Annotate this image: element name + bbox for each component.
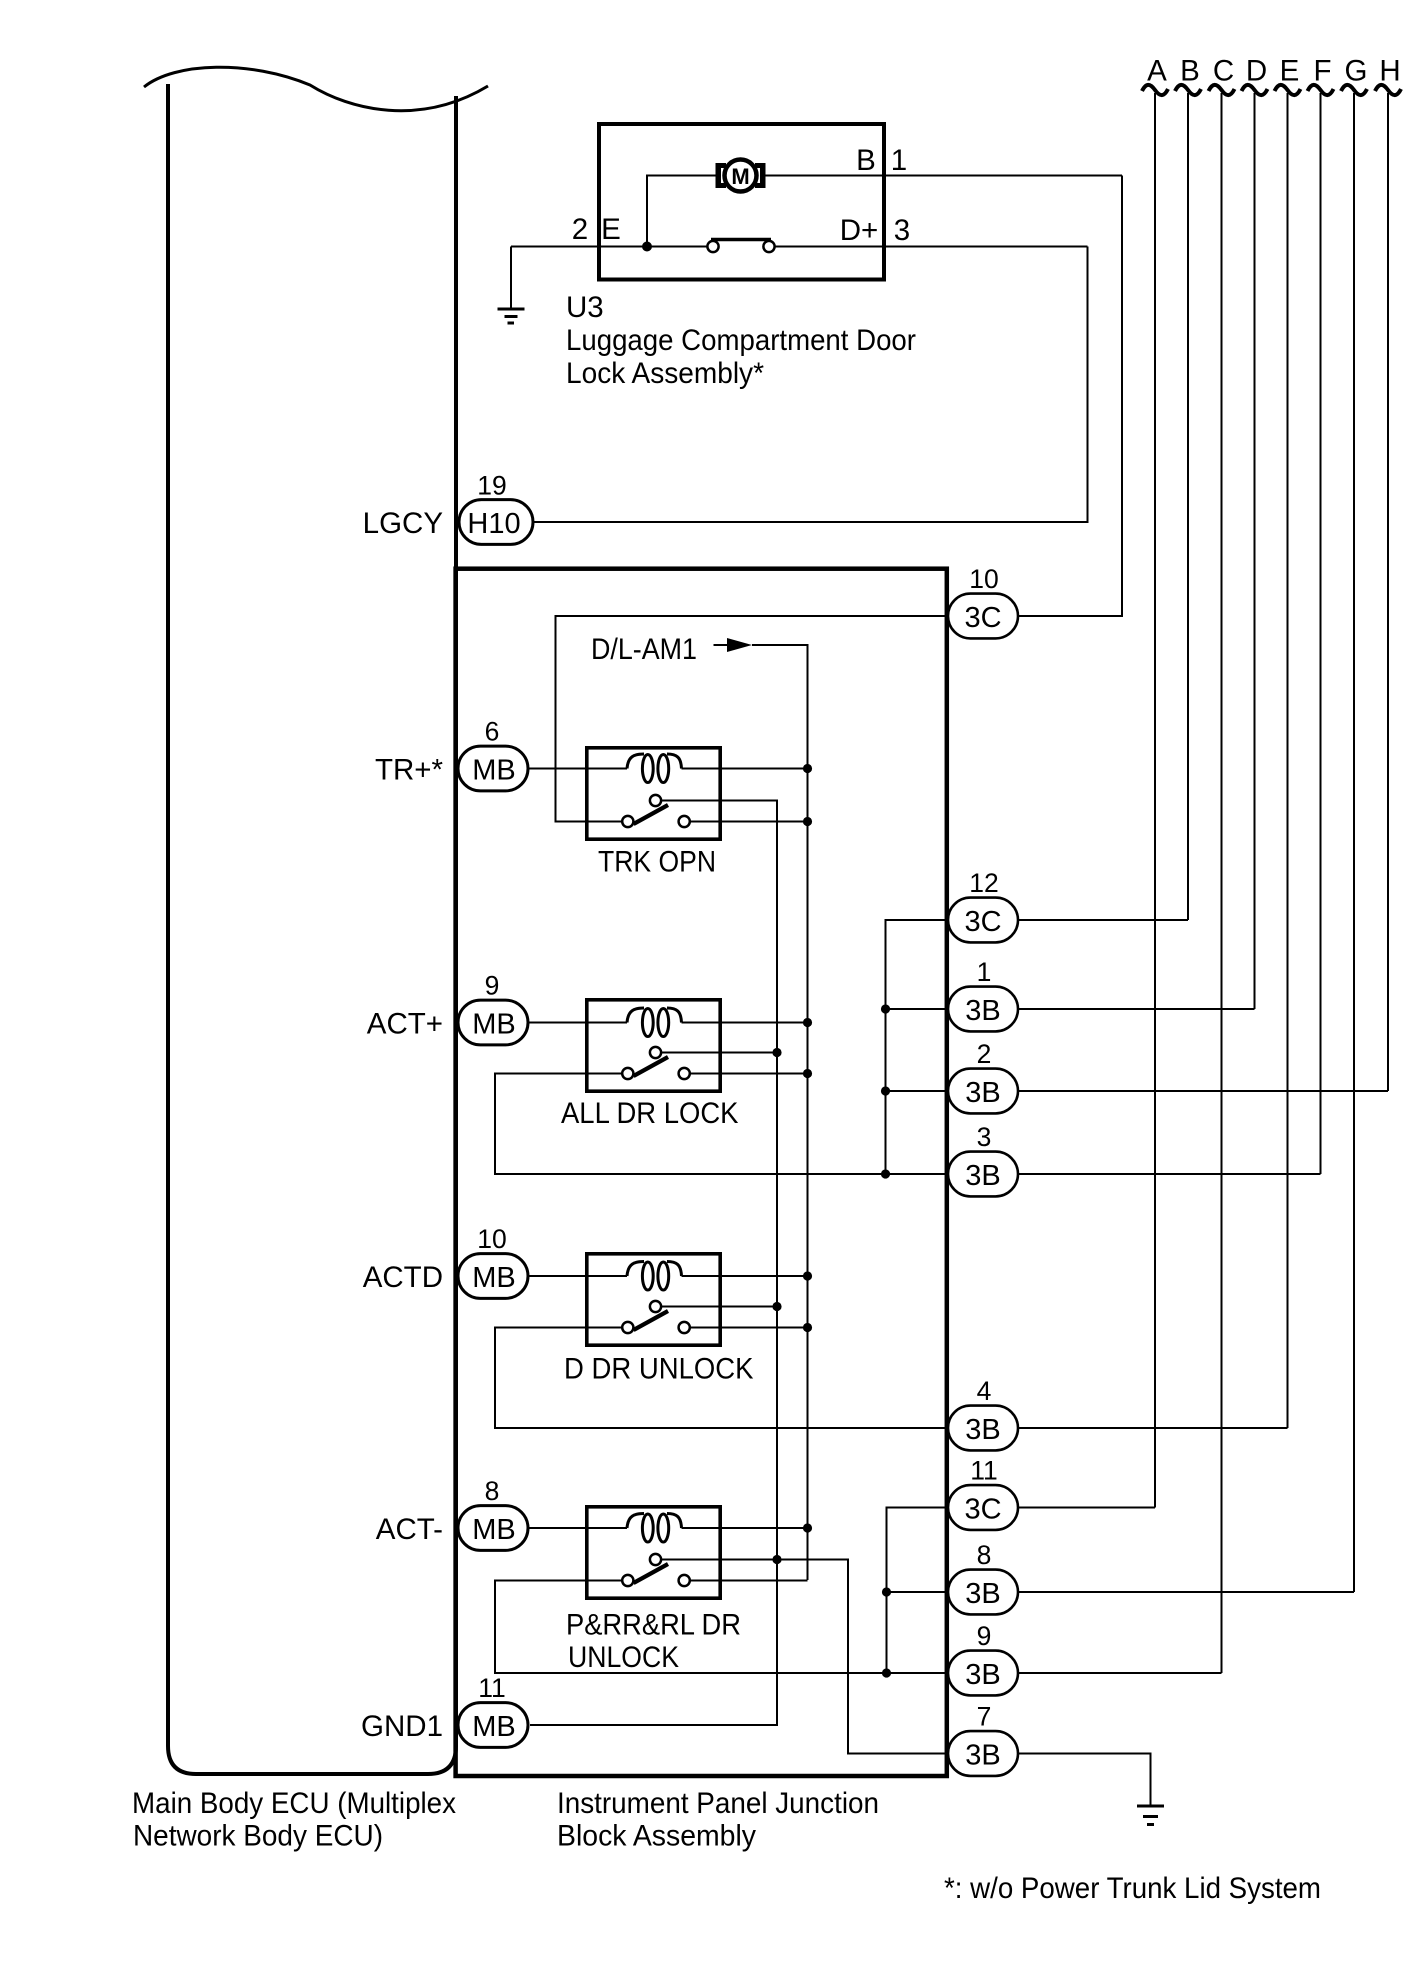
wavy continuation mark E [1275, 85, 1301, 95]
wire: motor B terminal to U3 pin 1 (pin B) [765, 175, 1122, 177]
connector H10 (LGCY) [459, 500, 533, 545]
wire: 3B8 to connector G [1018, 1591, 1354, 1593]
connector 3B pin 7 [948, 1731, 1018, 1776]
junction: contact/GND bus ALL [772, 1048, 781, 1057]
svg-text:2: 2 [977, 1039, 992, 1069]
wire B [1187, 93, 1189, 920]
connector 3B pin 8 [948, 1570, 1018, 1615]
connector 3B pin 4 [948, 1406, 1018, 1451]
wire: H10 pin 19 to U3 pin 3 riser [530, 247, 1088, 523]
Instrument Panel Junction Block Assembly box [456, 569, 947, 1776]
junction: contact/GND bus PRR [772, 1555, 781, 1564]
wire: 3C pin 10 internal to TRK OPN contact [556, 616, 948, 822]
wire: D DR UNLOCK common contact to GND bus [661, 1306, 777, 1308]
svg-text:ACT-: ACT- [376, 1513, 443, 1546]
connector 3B pin 3 [948, 1152, 1018, 1197]
wire: 3B pin 2 stub [886, 1090, 949, 1092]
wire: U3 pin E segment to switch [511, 246, 708, 248]
motor M (U3 luggage door lock motor) [716, 160, 766, 192]
connector 3B pin 2 [948, 1069, 1018, 1114]
U3 Luggage Compartment Door Lock Assembly box [599, 124, 884, 280]
connector 3C pin 10 [948, 594, 1018, 639]
wavy continuation mark F [1308, 85, 1334, 95]
svg-text:GND1: GND1 [361, 1710, 443, 1743]
svg-text:12: 12 [969, 868, 998, 898]
svg-text:D DR UNLOCK: D DR UNLOCK [564, 1353, 754, 1386]
Main Body ECU (Multiplex Network Body ECU) box [168, 84, 456, 1774]
wire: 3B3 to connector F [1018, 1173, 1321, 1175]
wire: ALL DR LOCK coil to bus [682, 1022, 808, 1024]
wire: 3B4 to connector E [1018, 1427, 1288, 1429]
Main Body ECU wavy top edge [144, 67, 488, 110]
wavy continuation mark B [1175, 85, 1201, 95]
svg-text:9: 9 [977, 1621, 992, 1651]
svg-text:Main Body ECU (Multiplex: Main Body ECU (Multiplex [132, 1787, 456, 1820]
svg-text:A: A [1147, 55, 1167, 88]
connector MB pin 6 (TR+*) [458, 746, 528, 791]
wire: D/L-AM1 feed bus [752, 645, 808, 1580]
wavy continuation mark A [1142, 85, 1168, 95]
svg-text:B: B [1180, 55, 1200, 88]
svg-text:ALL DR LOCK: ALL DR LOCK [561, 1097, 739, 1130]
D/L-AM1 arrow [714, 644, 728, 646]
wire: relay contacts common to GND1 bus [530, 801, 777, 1726]
wire: P&RR&RL coil to bus [682, 1527, 808, 1529]
svg-text:3C: 3C [964, 1494, 1001, 1526]
wire: P&RR&RL NO contact to bus end [690, 1580, 808, 1582]
wire: E node to ground [510, 247, 512, 310]
wire: TRK OPN NO contact to bus [690, 821, 808, 823]
svg-text:F: F [1313, 55, 1331, 88]
svg-text:D/L-AM1: D/L-AM1 [591, 633, 697, 666]
svg-text:1: 1 [977, 957, 992, 987]
wire: 3B pin 1 stub [886, 1008, 949, 1010]
svg-text:TR+*: TR+* [375, 754, 444, 787]
wire: 3C10 to U3 pin 1 riser [1018, 176, 1122, 617]
svg-text:Network Body ECU): Network Body ECU) [133, 1820, 383, 1853]
svg-text:11: 11 [478, 1673, 506, 1703]
wire: 3B1 to connector D [1018, 1008, 1255, 1010]
wire E [1287, 93, 1289, 1428]
svg-text:8: 8 [485, 1476, 500, 1506]
svg-text:2: 2 [572, 213, 588, 246]
junction: contact/bus TRK OPN [803, 817, 812, 826]
svg-text:3: 3 [977, 1122, 992, 1152]
svg-text:MB: MB [472, 1711, 516, 1743]
wire: P&RR&RL common contact to 3B pin 7 [661, 1560, 948, 1754]
junction: E node in U3 [642, 242, 652, 252]
wire: 3B2 to connector H [1018, 1090, 1388, 1092]
wire: D DR UNLOCK coil to bus [682, 1275, 808, 1277]
svg-text:E: E [601, 213, 621, 246]
svg-text:B: B [856, 144, 876, 177]
wire: 3B pin 8 stub [887, 1591, 949, 1593]
junction: contact/bus DDR [803, 1323, 812, 1332]
wire: 3C pin 12 link to 3B pins 1,2,3 [886, 920, 949, 1174]
connector MB pin 9 (ACT+) [458, 1000, 528, 1045]
svg-text:E: E [1280, 55, 1300, 88]
svg-text:H: H [1379, 55, 1400, 88]
svg-text:P&RR&RL DR: P&RR&RL DR [566, 1609, 741, 1642]
connector MB pin 8 (ACT-) [458, 1506, 528, 1551]
svg-text:8: 8 [977, 1540, 992, 1570]
wire: D DR UNLOCK contact to 3B pin 4 [495, 1328, 948, 1429]
svg-text:Instrument Panel Junction: Instrument Panel Junction [557, 1787, 879, 1820]
wire: MB pin 9 to ALL DR LOCK coil [528, 1022, 627, 1024]
connector 3B pin 9 [948, 1651, 1018, 1696]
wire: ALL DR LOCK contact to 3B pin 3 [495, 1074, 948, 1175]
svg-text:MB: MB [472, 1262, 516, 1294]
svg-text:Luggage Compartment Door: Luggage Compartment Door [566, 324, 916, 357]
wire: 3B9 to connector C [1018, 1672, 1222, 1674]
svg-text:11: 11 [970, 1456, 998, 1486]
junction: link/3B3 [881, 1169, 890, 1178]
svg-text:ACT+: ACT+ [367, 1008, 443, 1041]
svg-text:MB: MB [472, 755, 516, 787]
svg-text:9: 9 [485, 971, 500, 1001]
wire: MB pin 6 to TRK OPN coil [528, 768, 627, 770]
wire: P&RR&RL contact to 3B pin 9 [495, 1581, 948, 1674]
relay ALL DR LOCK [587, 1000, 720, 1091]
wire G [1353, 93, 1355, 1592]
svg-text:D: D [1246, 55, 1267, 88]
svg-text:3C: 3C [964, 906, 1001, 938]
svg-text:4: 4 [977, 1376, 992, 1406]
svg-text:7: 7 [977, 1702, 992, 1732]
wire: motor left terminal down to E node [647, 176, 716, 247]
wire F [1320, 93, 1322, 1174]
svg-text:Block Assembly: Block Assembly [557, 1820, 756, 1853]
connector 3B pin 1 [948, 987, 1018, 1032]
junction: coil/bus PRR [803, 1523, 812, 1532]
wavy continuation mark C [1209, 85, 1235, 95]
relay D DR UNLOCK [587, 1254, 720, 1345]
svg-text:H10: H10 [467, 508, 520, 540]
svg-text:Lock Assembly*: Lock Assembly* [566, 357, 764, 390]
svg-text:3B: 3B [965, 995, 1000, 1027]
svg-text:3B: 3B [965, 1414, 1000, 1446]
svg-text:LGCY: LGCY [363, 507, 444, 540]
svg-text:10: 10 [477, 1224, 506, 1254]
svg-text:3C: 3C [964, 602, 1001, 634]
svg-text:M: M [731, 164, 749, 189]
svg-text:G: G [1345, 55, 1368, 88]
wire: ALL DR LOCK common contact to GND bus [661, 1052, 777, 1054]
svg-text:3: 3 [894, 214, 910, 247]
svg-text:C: C [1213, 55, 1234, 88]
junction: link/3B8 [882, 1587, 891, 1596]
wire H [1387, 93, 1389, 1091]
svg-text:*: w/o Power Trunk Lid System: *: w/o Power Trunk Lid System [944, 1872, 1321, 1905]
wire A [1154, 93, 1156, 1508]
svg-text:3B: 3B [965, 1659, 1000, 1691]
junction: link/3B1 [881, 1004, 890, 1013]
connector MB pin 10 (ACTD) [458, 1254, 528, 1299]
junction: contact/bus ALL [803, 1069, 812, 1078]
wire C [1221, 93, 1223, 1673]
connector MB pin 11 (GND1) [458, 1703, 528, 1748]
svg-text:3B: 3B [965, 1160, 1000, 1192]
svg-text:3B: 3B [965, 1077, 1000, 1109]
svg-text:D+: D+ [840, 214, 879, 247]
wire: switch to U3 pin 3 (D+) [775, 246, 1088, 248]
svg-text:1: 1 [891, 144, 907, 177]
svg-text:3B: 3B [965, 1578, 1000, 1610]
wavy continuation mark G [1341, 85, 1367, 95]
svg-text:6: 6 [485, 717, 500, 747]
wire: MB pin 8 to P&RR&RL coil [528, 1527, 627, 1529]
svg-text:19: 19 [477, 471, 506, 501]
svg-text:MB: MB [472, 1514, 516, 1546]
wire D [1254, 93, 1256, 1009]
wavy continuation mark D [1242, 85, 1268, 95]
svg-text:10: 10 [969, 564, 998, 594]
ground (U3 body ground) [498, 309, 525, 323]
junction: coil/bus TRK OPN [803, 764, 812, 773]
U3 trunk lock position switch [707, 240, 774, 253]
wire: ALL DR LOCK NO contact to bus [690, 1073, 808, 1075]
junction: coil/bus ALL [803, 1018, 812, 1027]
wire: D DR UNLOCK NO contact to bus [690, 1327, 808, 1329]
wire: 3C11 to connector A [1018, 1507, 1155, 1509]
svg-text:U3: U3 [566, 291, 604, 324]
svg-text:MB: MB [472, 1009, 516, 1041]
junction: coil/bus DDR [803, 1271, 812, 1280]
wire: 3C pin 11 link to 3B pins 8,9 [887, 1508, 949, 1674]
wavy continuation mark H [1375, 85, 1401, 95]
relay P&RR&RL DR UNLOCK [587, 1507, 720, 1598]
junction: contact/GND bus DDR [772, 1302, 781, 1311]
svg-text:ACTD: ACTD [363, 1261, 443, 1294]
svg-text:3B: 3B [965, 1740, 1000, 1772]
svg-text:TRK OPN: TRK OPN [598, 846, 716, 879]
wire: TRK OPN coil to D/L-AM1 bus [682, 768, 808, 770]
wire: 3B7 to ground [1018, 1754, 1151, 1807]
wire: MB pin 10 to D DR UNLOCK coil [528, 1275, 627, 1277]
wire: 3C12 to connector B [1018, 919, 1188, 921]
connector 3C pin 11 [948, 1485, 1018, 1530]
connector 3C pin 12 [948, 898, 1018, 943]
junction: link/3B2 [881, 1086, 890, 1095]
svg-text:UNLOCK: UNLOCK [568, 1641, 679, 1674]
ground (junction block 3B pin 7) [1137, 1806, 1164, 1825]
junction: link/3B9 [882, 1668, 891, 1677]
relay TRK OPN [587, 748, 720, 839]
